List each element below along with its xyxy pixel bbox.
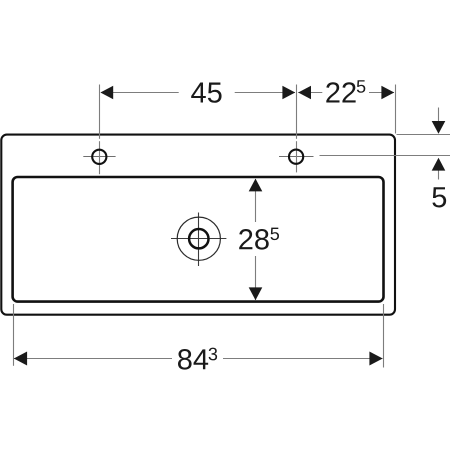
label 84.3: [178, 348, 217, 370]
arrow 45 left: [100, 86, 113, 100]
tap crosshair left: [83, 156, 115, 158]
arrow 84.3 left: [14, 352, 27, 366]
extension line right tap: [296, 85, 298, 139]
label 28.5: [239, 228, 279, 250]
reference line top (5 dim upper): [397, 134, 450, 136]
extension line right edge: [395, 85, 397, 134]
extension line bottom left: [13, 304, 15, 366]
arrow 28.5 down: [249, 287, 263, 300]
label 22.5: [326, 80, 365, 102]
arrow 5 up: [432, 158, 446, 171]
dimension line 84.3: [14, 358, 383, 360]
washbasin inner bowl: [13, 177, 384, 302]
washbasin outer rim: [1, 135, 395, 315]
arrow 22.5 left: [298, 86, 311, 100]
dim 5 down-arrow shaft: [438, 108, 440, 123]
extension line bottom right: [383, 304, 385, 368]
label 45: [191, 83, 221, 103]
dimension line 28.5: [255, 179, 257, 300]
arrow 84.3 right: [369, 352, 382, 366]
arrow 45 right: [282, 86, 295, 100]
tap hole left: [92, 150, 106, 164]
dimension line 22.5: [298, 92, 394, 94]
dim 5 up-arrow shaft: [438, 170, 440, 180]
drain inner circle: [189, 229, 208, 248]
arrow 5 down: [432, 121, 446, 134]
arrow 28.5 up: [249, 179, 263, 192]
tap hole right: [289, 150, 303, 164]
arrow 22.5 right: [381, 86, 394, 100]
label 5: [432, 187, 446, 207]
tap crosshair right: [279, 156, 314, 158]
drain outer circle: [177, 217, 220, 260]
dimension line 45: [101, 92, 295, 94]
reference line lower (5 dim lower): [320, 155, 450, 157]
drain crosshair: [171, 213, 226, 267]
extension line left tap: [99, 85, 101, 139]
